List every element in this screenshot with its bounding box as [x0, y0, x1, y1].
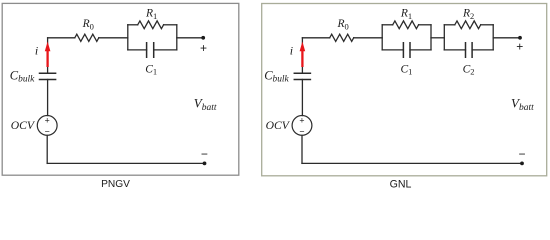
svg-text:R1: R1	[145, 8, 157, 21]
svg-text:OCV: OCV	[266, 119, 291, 132]
node: negative terminal dot (GNL)	[520, 162, 524, 166]
svg-text:+: +	[200, 41, 207, 55]
wire: GNL bottom rail	[302, 162, 521, 164]
wire: R0 to first RC block (GNL)	[354, 37, 383, 39]
wire: RC block 1 bottom branch right lead (GNL)	[410, 49, 431, 51]
wire: RC block 1 top branch right lead (GNL)	[419, 24, 431, 26]
svg-text:−: −	[518, 147, 525, 161]
wire: PNGV top horizontal to R0	[48, 37, 75, 39]
resistor R1 (PNGV)	[138, 21, 164, 29]
wire: RC block 1 right vertical (GNL)	[430, 25, 432, 50]
capacitor C2 plates (GNL)	[466, 43, 473, 57]
svg-text:Cbulk: Cbulk	[10, 68, 35, 84]
wire: RC block left vertical (PNGV)	[127, 25, 129, 50]
svg-text:R2: R2	[462, 8, 474, 21]
node: positive terminal dot (PNGV)	[201, 36, 205, 40]
wire: RC block 2 top branch left lead (GNL)	[444, 24, 455, 26]
resistor R0 (GNL)	[330, 34, 354, 41]
wire: RC block 2 top branch right lead (GNL)	[481, 24, 494, 26]
svg-text:−: −	[299, 126, 304, 136]
svg-text:R0: R0	[337, 18, 349, 31]
wire: RC block 2 bottom branch right lead (GNL)	[472, 49, 493, 51]
svg-text:i: i	[35, 44, 38, 58]
svg-text:Cbulk: Cbulk	[264, 68, 289, 84]
resistor R0 (PNGV)	[75, 34, 99, 41]
wire: RC block 1 left vertical (GNL)	[381, 25, 383, 50]
PNGV panel frame	[2, 3, 239, 175]
wire: RC block 2 left vertical (GNL)	[443, 25, 445, 50]
wire: RC block right vertical (PNGV)	[176, 25, 178, 50]
wire: RC block bottom branch left lead (PNGV)	[128, 49, 147, 51]
svg-text:R0: R0	[82, 18, 94, 31]
capacitor C_bulk plates (GNL)	[294, 73, 310, 79]
wire: block 2 to positive terminal (GNL)	[493, 37, 519, 39]
svg-text:+: +	[45, 116, 50, 126]
wire: OCV to bottom rail (PNGV)	[46, 135, 48, 163]
wire: between RC blocks (GNL)	[431, 37, 444, 39]
wire: C_bulk to OCV source (GNL)	[301, 80, 303, 116]
svg-text:C1: C1	[145, 63, 157, 76]
wire: RC block 1 bottom branch left lead (GNL)	[382, 49, 403, 51]
svg-text:−: −	[45, 126, 50, 136]
wire: RC block bottom branch right lead (PNGV)	[154, 49, 177, 51]
capacitor C1 plates (PNGV)	[147, 43, 154, 57]
capacitor C_bulk plates (PNGV)	[40, 73, 56, 79]
node: negative terminal dot (PNGV)	[203, 162, 207, 166]
svg-text:C2: C2	[463, 63, 475, 76]
svg-text:PNGV: PNGV	[101, 179, 130, 190]
wire: OCV to bottom rail (GNL)	[301, 135, 303, 163]
resistor R2 (GNL)	[455, 21, 481, 29]
current arrow i (GNL)	[300, 42, 306, 68]
current arrow i (PNGV)	[45, 42, 51, 68]
wire: GNL top horizontal to R0	[302, 37, 329, 39]
wire: C_bulk to OCV source (PNGV)	[47, 80, 49, 116]
svg-text:Vbatt: Vbatt	[194, 95, 217, 112]
node: positive terminal dot (GNL)	[518, 36, 522, 40]
svg-text:GNL: GNL	[390, 179, 412, 191]
wire: PNGV top-left vertical (node to C_bulk)	[47, 38, 49, 74]
capacitor C1 plates (GNL)	[403, 43, 410, 57]
svg-text:i: i	[290, 44, 293, 58]
wire: RC block 2 bottom branch left lead (GNL)	[444, 49, 465, 51]
resistor R1 (GNL)	[393, 21, 419, 29]
svg-text:R1: R1	[400, 8, 412, 21]
wire: RC block top branch left lead (PNGV)	[128, 24, 138, 26]
voltage source OCV (GNL)	[292, 116, 312, 136]
voltage source OCV (PNGV)	[37, 116, 57, 136]
wire: block to positive terminal (PNGV)	[177, 37, 203, 39]
wire: RC block 1 top branch left lead (GNL)	[382, 24, 393, 26]
svg-text:−: −	[201, 147, 208, 161]
wire: GNL top-left vertical (node to C_bulk)	[301, 38, 303, 74]
svg-text:+: +	[299, 116, 304, 126]
svg-text:Vbatt: Vbatt	[511, 95, 534, 112]
svg-text:OCV: OCV	[11, 119, 36, 132]
svg-text:C1: C1	[401, 63, 413, 76]
wire: R0 to RC block (PNGV)	[99, 37, 128, 39]
wire: RC block top branch right lead (PNGV)	[164, 24, 177, 26]
wire: RC block 2 right vertical (GNL)	[492, 25, 494, 50]
wire: PNGV bottom rail	[47, 162, 204, 164]
GNL panel frame	[262, 4, 547, 176]
svg-text:+: +	[516, 39, 523, 53]
